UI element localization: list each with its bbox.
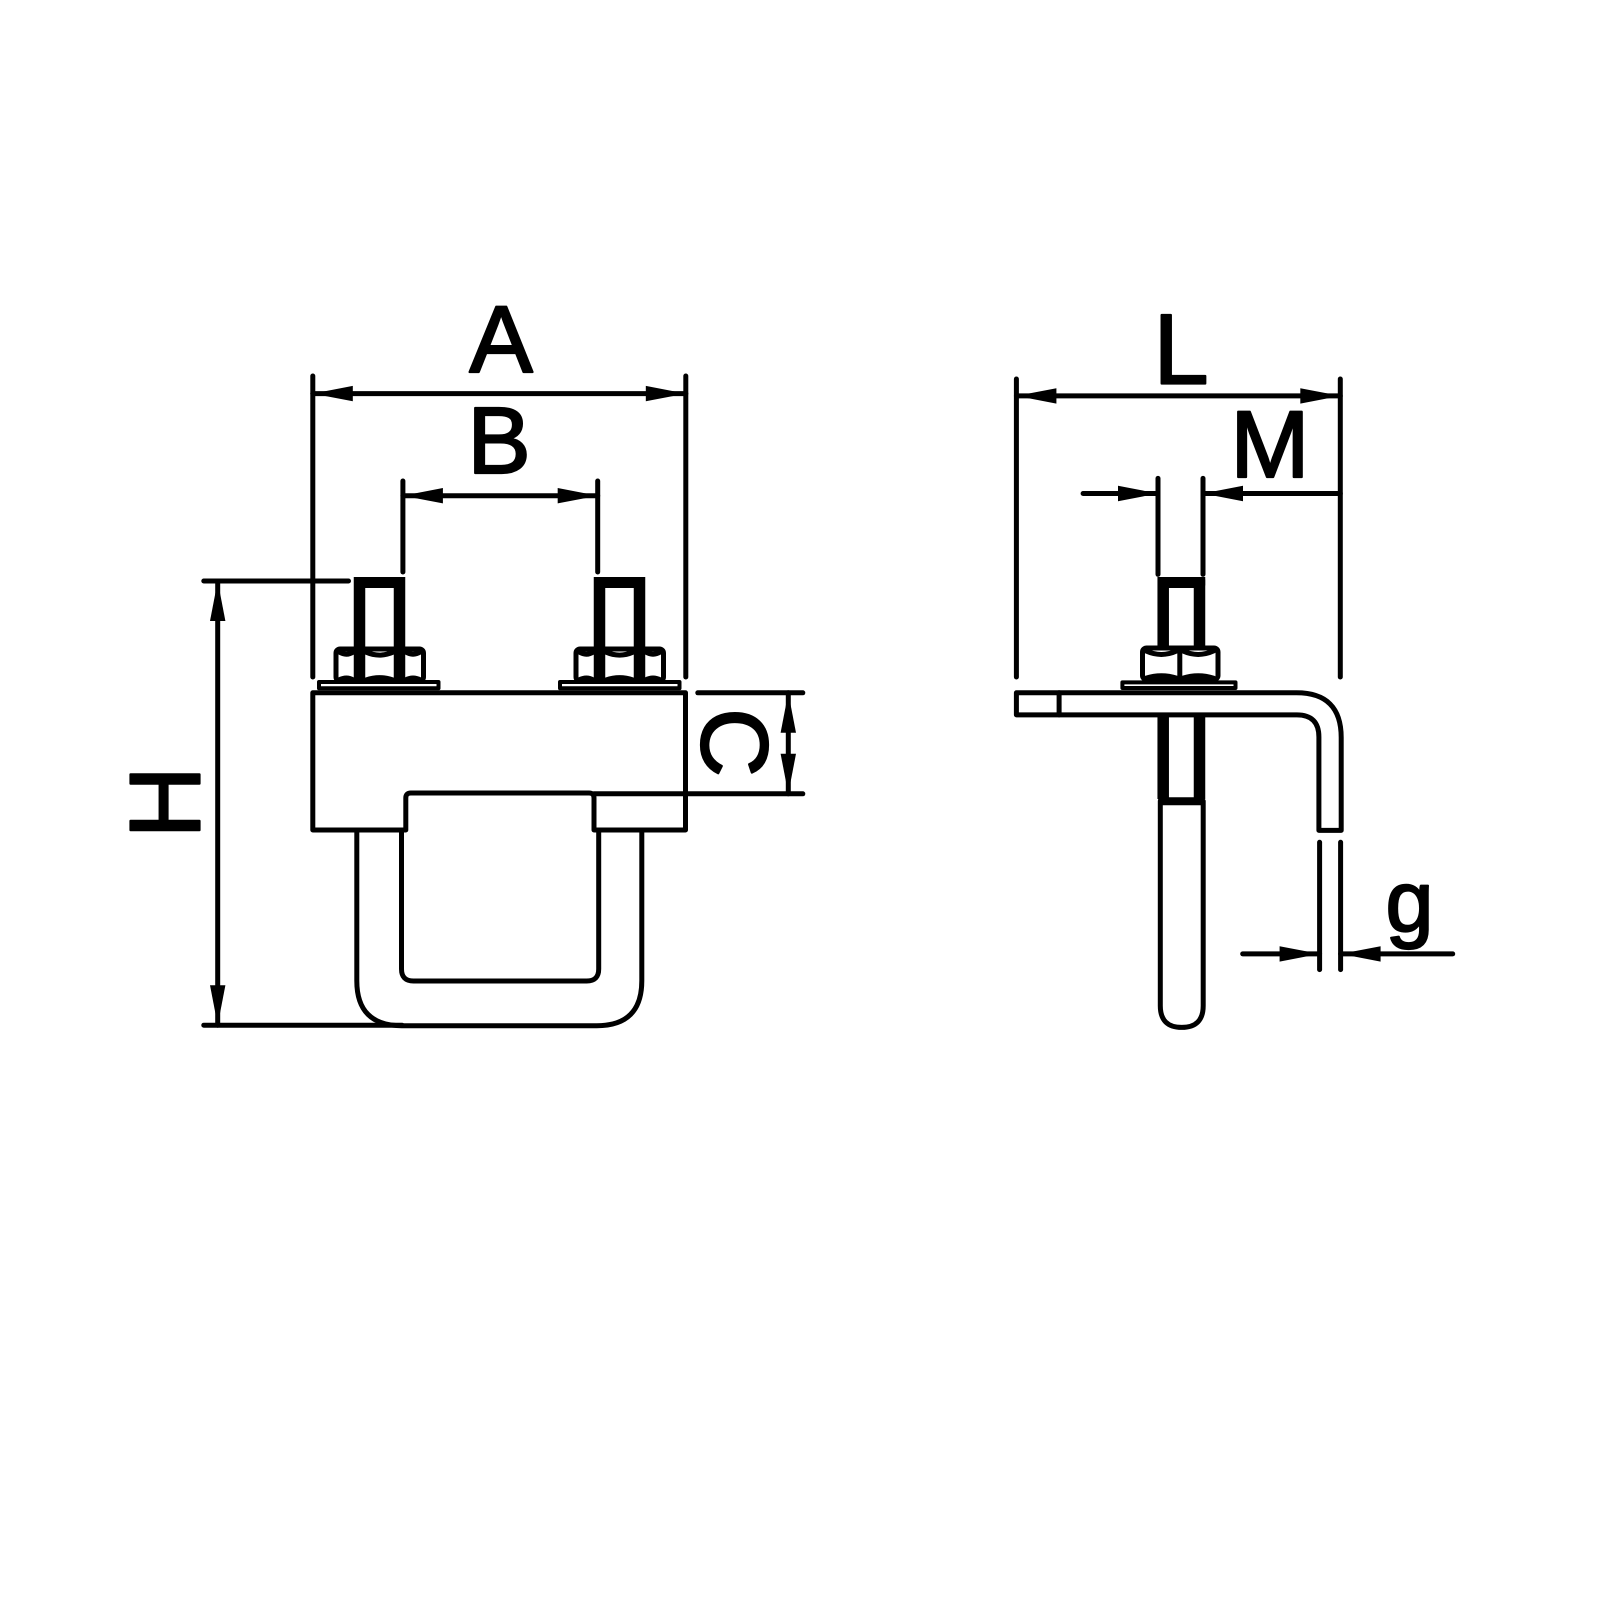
washer (side view) — [1122, 682, 1235, 688]
dimension L line with arrows — [1016, 388, 1340, 403]
dimension g extension lines — [1320, 842, 1341, 969]
washer left — [319, 682, 439, 688]
svg-text:g: g — [1386, 854, 1434, 950]
svg-text:C: C — [681, 708, 787, 777]
U-bolt inner profile — [402, 830, 599, 981]
svg-text:L: L — [1153, 294, 1208, 405]
svg-text:B: B — [467, 388, 530, 494]
dimension L extension lines — [1016, 379, 1340, 677]
U-bolt right threaded stud — [594, 577, 645, 682]
dimension B extension lines — [403, 481, 598, 572]
dimension M line with arrows — [1083, 486, 1340, 501]
dimension A extension lines — [313, 376, 686, 677]
hex nut left (front view) — [336, 649, 424, 681]
dimension M extension lines — [1158, 478, 1203, 574]
hex nut right (front view) — [576, 649, 664, 681]
bolt shaft threaded part below bracket — [1163, 716, 1199, 799]
svg-text:M: M — [1230, 392, 1309, 498]
bolt threaded stud (side view) — [1158, 577, 1206, 648]
dimension C extension lines — [594, 693, 803, 794]
angle bracket end tick — [1057, 693, 1062, 715]
dimension H line with arrows — [210, 581, 225, 1025]
dimension A line with arrows — [313, 386, 686, 401]
washer right — [560, 682, 680, 688]
dimension H extension lines — [204, 581, 402, 1025]
dimension C line with arrows — [781, 693, 796, 794]
hex nut (side view) — [1143, 648, 1219, 680]
U-bolt outer profile — [357, 830, 642, 1026]
U-bolt left threaded stud — [354, 577, 405, 682]
thread runout line — [1158, 797, 1204, 805]
dimension B line with arrows — [403, 488, 598, 503]
svg-text:H: H — [110, 766, 222, 838]
dimension g line with arrows — [1243, 946, 1453, 961]
angle bracket (side view) — [1016, 693, 1341, 831]
bolt plain shank with round end — [1160, 801, 1203, 1027]
svg-text:A: A — [469, 287, 533, 393]
clamp body with saddle window — [313, 693, 686, 830]
